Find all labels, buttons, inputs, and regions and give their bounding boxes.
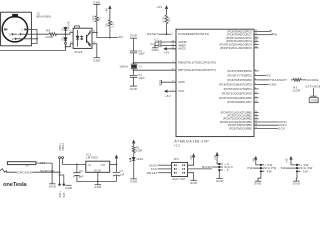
- pin 2: [12, 37, 17, 41]
- junction shield: [36, 38, 38, 40]
- wire gnd symbol below regulator: [97, 182, 99, 185]
- svg-text:(PCINT13/SCL/ADC5)PC5: (PCINT13/SCL/ADC5)PC5: [220, 46, 252, 50]
- svg-text:GND: GND: [93, 0, 100, 4]
- svg-text:R1: R1: [99, 16, 102, 20]
- connector PW pin dots: [260, 164, 262, 173]
- svg-text:(PCINT16/RXD)PD0: (PCINT16/RXD)PD0: [227, 69, 252, 73]
- wire PWR2 to regulator input: [63, 159, 86, 165]
- wire R1 to pin5 and RX: [96, 22, 98, 37]
- svg-text:(PCINT22/OC0A/AIN0)PD6: (PCINT22/OC0A/AIN0)PD6: [219, 96, 252, 100]
- svg-text:PB7(XTAL2/TOSC2/PCINT7): PB7(XTAL2/TOSC2/PCINT7): [178, 68, 216, 72]
- supply +5V at PW block: [253, 156, 261, 165]
- wire net RX: [259, 73, 271, 77]
- wire BAT- up: [60, 175, 64, 183]
- svg-text:+5V: +5V: [165, 94, 171, 98]
- svg-text:AVCC: AVCC: [178, 47, 186, 51]
- svg-text:GND: GND: [159, 80, 162, 86]
- junction D chain bottom: [65, 46, 67, 48]
- connector BAT- pad: [63, 183, 66, 197]
- resistor R3: [293, 79, 307, 82]
- optocoupler phototransistor: [86, 35, 88, 43]
- right pin stubs PB: [254, 112, 278, 128]
- svg-text:C1: C1: [154, 39, 158, 42]
- optocoupler pin6 stub box: [75, 26, 80, 28]
- capacitor C7 polarized: [113, 165, 120, 182]
- svg-text:3.3K: 3.3K: [112, 22, 115, 28]
- wire MISO: [158, 164, 171, 166]
- svg-text:J2: J2: [36, 11, 40, 15]
- svg-text:1uF: 1uF: [120, 173, 125, 176]
- svg-text:(PCINT21/OC0B/T1)PD5: (PCINT21/OC0B/T1)PD5: [222, 91, 253, 95]
- svg-text:18pF: 18pF: [139, 52, 146, 55]
- resistor R5: [108, 13, 111, 38]
- svg-text:GROUND: GROUND: [17, 171, 32, 175]
- ground below jack: [49, 184, 56, 189]
- wire SW to ground: [295, 171, 298, 181]
- svg-text:C2: C2: [150, 43, 154, 46]
- wire RESET: [158, 172, 171, 174]
- label F: [210, 165, 219, 169]
- svg-text:- PW: - PW: [264, 169, 272, 173]
- svg-text:ANODE: ANODE: [307, 78, 319, 82]
- svg-text:+5V: +5V: [156, 5, 162, 9]
- svg-text:(PCINT23/AIN1)PD7: (PCINT23/AIN1)PD7: [227, 100, 252, 104]
- svg-text:PC6(/RESET/PCINT14): PC6(/RESET/PCINT14): [178, 32, 209, 36]
- connector SW pin dots: [296, 164, 298, 173]
- left pin stubs: [172, 42, 177, 49]
- left pin labels: [178, 32, 216, 93]
- right pin stubs PC: [254, 31, 259, 48]
- svg-text:GND: GND: [94, 185, 101, 189]
- svg-text:BAT-: BAT-: [63, 191, 66, 197]
- svg-text:GND: GND: [178, 80, 184, 84]
- svg-text:100R: 100R: [93, 15, 96, 22]
- wire RX line: [97, 37, 119, 39]
- svg-text:IC2: IC2: [174, 143, 180, 147]
- ground below PW: [254, 181, 261, 186]
- capacitor C4: [130, 75, 138, 77]
- svg-text:oneTesla: oneTesla: [3, 182, 27, 188]
- junction R5 on RX: [109, 37, 111, 39]
- svg-text:AVR-ISP: AVR-ISP: [172, 177, 185, 181]
- wire C3 to crystal: [133, 53, 135, 64]
- supply +5V at SW block: [286, 156, 298, 165]
- svg-text:GND: GND: [269, 82, 276, 86]
- flag PW: [271, 33, 277, 37]
- supply +5V at regulator: [115, 155, 117, 165]
- svg-text:JP1: JP1: [173, 157, 179, 161]
- wire crystal to C4: [133, 69, 135, 76]
- svg-text:RESET: RESET: [147, 32, 158, 36]
- wire net F: [259, 30, 270, 32]
- wire tip to node: [36, 162, 52, 164]
- left pin numbers: [172, 33, 175, 92]
- svg-text:120R: 120R: [292, 88, 300, 92]
- label PW: [247, 166, 261, 170]
- wire shield vertical: [31, 29, 37, 43]
- svg-text:PW: PW: [247, 166, 252, 170]
- svg-text:PB6(XTAL1/TOSC1/PCINT6): PB6(XTAL1/TOSC1/PCINT6): [178, 61, 216, 65]
- svg-text:D1: D1: [62, 27, 65, 31]
- svg-text:16MHz: 16MHz: [119, 66, 128, 69]
- supply +5V arrow VCC: [164, 90, 176, 98]
- capacitor C3: [130, 51, 138, 53]
- resistor R1 lead top: [96, 4, 98, 15]
- pad D chain: [65, 42, 67, 44]
- junction jack ground: [51, 171, 53, 173]
- svg-text:- SW: - SW: [300, 169, 308, 173]
- ground below opto: [93, 58, 100, 63]
- svg-text:TRANSMIT: TRANSMIT: [270, 78, 287, 82]
- wire LED1 to ground: [133, 162, 135, 179]
- wire reset to pin1: [158, 33, 171, 35]
- optocoupler OC1 4N25 box: [73, 28, 92, 48]
- wire net TRANSMIT: [259, 78, 288, 82]
- supply +5V at F block: [214, 152, 219, 164]
- svg-text:PWR2: PWR2: [62, 142, 65, 150]
- ground below C1 C2: [152, 48, 159, 52]
- wire JP1 to +5V: [188, 157, 194, 165]
- junction VO node: [116, 164, 118, 166]
- svg-text:R6: R6: [46, 28, 50, 32]
- jack X1 tip bar: [7, 162, 36, 165]
- flag F: [270, 29, 273, 33]
- ground below regulator: [94, 185, 101, 190]
- connector F pins: [219, 164, 223, 170]
- supply +5V at R7: [156, 5, 168, 15]
- capacitor C6 polarized: [73, 173, 80, 177]
- connector J2 DIN circle: [2, 17, 27, 42]
- label SW: [281, 166, 297, 170]
- svg-text:RX: RX: [266, 73, 271, 77]
- wire pin4 net to R6: [14, 33, 49, 35]
- svg-text:GND: GND: [93, 58, 100, 62]
- wire gnd to C3: [133, 38, 135, 51]
- svg-text:MIDI-IN/DIN1: MIDI-IN/DIN1: [36, 17, 52, 19]
- svg-text:BAT+: BAT+: [59, 190, 62, 197]
- connector J2 MIDI-IN/DIN box: [1, 12, 32, 46]
- wire F to ground: [218, 170, 220, 178]
- supply +5V at R2: [133, 140, 135, 146]
- svg-text:GND: GND: [293, 182, 300, 186]
- svg-text:C6: C6: [79, 170, 83, 173]
- resistor R1: [95, 16, 98, 23]
- connector SW pins: [297, 165, 300, 171]
- wire R6 to opto: [56, 33, 73, 35]
- right pin stubs PD: [254, 71, 259, 102]
- connector BAT+ pad: [58, 183, 61, 197]
- svg-text:4.7k: 4.7k: [162, 16, 165, 22]
- svg-text:VCC: VCC: [178, 89, 184, 93]
- svg-text:330R: 330R: [136, 150, 143, 153]
- svg-text:18pF: 18pF: [139, 77, 146, 80]
- svg-text:GND: GND: [152, 48, 159, 52]
- LED1 symbol: [132, 157, 135, 162]
- svg-text:+5V: +5V: [214, 155, 217, 160]
- ground at MCU GND pin: [159, 80, 176, 86]
- wire C1 C2 to ground: [154, 42, 156, 48]
- resistor R7: [165, 15, 168, 34]
- ground above C3: [130, 34, 137, 39]
- diode D2 symbol: [64, 38, 67, 41]
- wire jack node down: [51, 163, 53, 183]
- resistor R2: [132, 146, 135, 157]
- svg-text:GND: GND: [94, 169, 101, 173]
- wire pin2 net: [17, 38, 37, 40]
- svg-text:GND2: GND2: [311, 100, 319, 103]
- ground below F: [216, 178, 223, 183]
- svg-text:VI: VI: [88, 163, 91, 167]
- optocoupler LED arrows: [80, 36, 83, 40]
- supply +5V at R5: [105, 5, 111, 13]
- wire JP1 to ground: [188, 173, 194, 181]
- svg-text:(PCINT18/INT0)PD2: (PCINT18/INT0)PD2: [227, 78, 252, 82]
- wire SCK: [158, 168, 172, 170]
- supply +5V arrow AVCC: [163, 47, 176, 55]
- svg-text:+5V: +5V: [164, 51, 170, 55]
- wire opto pin5: [92, 32, 97, 34]
- svg-text:CATHODE: CATHODE: [305, 85, 320, 89]
- junction R7 reset: [166, 33, 168, 35]
- optocoupler internal LED: [76, 30, 79, 47]
- svg-text:GND: GND: [190, 181, 197, 185]
- svg-text:D2: D2: [62, 37, 65, 41]
- wire net PW: [259, 34, 272, 36]
- connector PWR1 pad: [59, 142, 62, 158]
- crystal Y1 plates: [131, 64, 138, 69]
- wire C6 top: [76, 164, 78, 172]
- diode D1 symbol: [64, 27, 67, 30]
- svg-text:SW: SW: [281, 166, 286, 170]
- svg-text:+5V: +5V: [253, 157, 256, 162]
- LED1 arrows: [130, 158, 132, 162]
- svg-text:(PCINT19/OC2B/INT1)PD3: (PCINT19/OC2B/INT1)PD3: [219, 82, 252, 86]
- ground below JP1: [190, 180, 197, 185]
- svg-text:CTS: CTS: [40, 162, 46, 165]
- wire PWR1 to BAT+: [59, 159, 61, 184]
- crystal Y1 body: [131, 65, 137, 68]
- svg-text:4N25: 4N25: [75, 50, 83, 54]
- svg-text:GND: GND: [254, 182, 261, 186]
- ground below C4: [130, 86, 137, 91]
- jack sleeve spring: [0, 169, 6, 173]
- svg-text:GND: GND: [65, 186, 72, 190]
- supply GND2 bar: [310, 95, 317, 97]
- svg-text:LED1: LED1: [137, 158, 144, 161]
- right pin numbers PD: [255, 69, 258, 102]
- wire D chain to opto pin2: [66, 44, 74, 51]
- junction C2 gnd: [154, 45, 156, 47]
- junction BAT-: [59, 174, 61, 176]
- wire VO to +5V: [110, 164, 117, 166]
- regulator IC1 box: [86, 161, 110, 172]
- wire transmit to R3: [291, 79, 293, 81]
- resistor R6: [49, 33, 57, 36]
- svg-text:+5V: +5V: [286, 158, 289, 163]
- wire net GND pd3: [259, 82, 277, 86]
- svg-text:PW: PW: [272, 33, 277, 37]
- wire C6 bottom to rail: [77, 175, 117, 181]
- junction D1 node: [65, 33, 67, 35]
- svg-text:- F: - F: [224, 168, 228, 172]
- wire MOSI: [188, 165, 212, 169]
- svg-text:1uF: 1uF: [79, 176, 84, 179]
- right pin labels: [219, 29, 252, 130]
- ground above R1: [93, 0, 100, 4]
- diode D1 line: [65, 27, 67, 43]
- wire PW to ground: [258, 171, 261, 181]
- svg-text:GND: GND: [130, 179, 137, 183]
- junction sleeve net: [59, 171, 61, 173]
- pin 3: [4, 27, 8, 31]
- junction R1 pin5: [96, 32, 98, 34]
- header JP1 inner pins: [175, 164, 185, 173]
- wire ground sleeve: [6, 170, 59, 172]
- wire xtal1 to MCU: [134, 62, 177, 64]
- supply +5V at JP1: [190, 153, 195, 160]
- svg-text:(PCINT17/TXD)PD1: (PCINT17/TXD)PD1: [228, 73, 253, 77]
- connector J2 key notch: [12, 14, 18, 18]
- svg-text:GND: GND: [130, 87, 137, 91]
- wire cathode down: [312, 88, 314, 96]
- svg-text:RESET: RESET: [147, 171, 158, 175]
- wire pin1 net: [27, 28, 37, 30]
- wire opto pin4 to ground: [92, 44, 97, 58]
- capacitor C2: [150, 43, 176, 47]
- pin 1: [21, 27, 26, 31]
- svg-text:(PCINT5/SCK)PB5: (PCINT5/SCK)PB5: [229, 126, 252, 130]
- svg-text:R5: R5: [106, 23, 109, 27]
- supply GND2 box: [309, 98, 319, 103]
- svg-text:Y1: Y1: [139, 66, 143, 69]
- label GROUND on wire: [17, 171, 32, 175]
- connector PW pins: [261, 165, 264, 171]
- svg-text:TIP: TIP: [25, 165, 30, 168]
- capacitor C1: [154, 39, 176, 44]
- pin 4: [17, 32, 22, 36]
- junction xtal1: [133, 62, 135, 64]
- svg-text:+5V: +5V: [190, 155, 193, 160]
- wire xtal2 to MCU: [134, 69, 177, 71]
- wire ground return long: [0, 50, 66, 52]
- pin 5: [9, 32, 13, 36]
- svg-text:LM7805: LM7805: [86, 155, 98, 159]
- ground below SW: [293, 181, 300, 186]
- connector F pin dots: [218, 163, 220, 171]
- svg-text:GND: GND: [130, 34, 137, 38]
- svg-text:GND: GND: [49, 184, 56, 188]
- junction C6 input: [76, 164, 78, 166]
- svg-text:220R: 220R: [45, 35, 53, 39]
- header JP1 box: [172, 162, 188, 176]
- svg-text:+5V: +5V: [105, 8, 108, 13]
- svg-text:(PCINT20/XCK/T0)PD4: (PCINT20/XCK/T0)PD4: [224, 87, 253, 91]
- svg-text:GND: GND: [216, 179, 223, 183]
- junction regulator gnd: [97, 181, 99, 183]
- svg-text:F: F: [210, 165, 212, 169]
- right pin numbers PB: [255, 111, 258, 129]
- wire C4 to ground: [133, 77, 135, 86]
- connector PWR2 pad: [62, 142, 65, 158]
- ground small right: [65, 185, 72, 190]
- svg-text:RX: RX: [119, 35, 124, 39]
- svg-text:VO: VO: [101, 163, 106, 167]
- wire regulator gnd: [97, 172, 99, 181]
- right pin numbers PC: [255, 30, 258, 49]
- IC2 ATMEGA168 box: [176, 29, 254, 136]
- svg-text:SCK: SCK: [278, 126, 285, 130]
- junction xtal2: [133, 69, 135, 71]
- svg-text:R7: R7: [169, 18, 172, 22]
- ground below LED1: [130, 179, 137, 184]
